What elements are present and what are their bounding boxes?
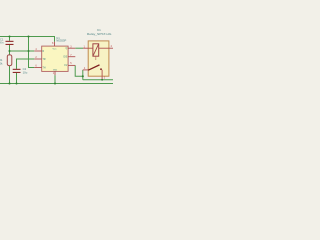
- wire vertical rail: [29, 37, 35, 68]
- junction IC gnd pin / rail: [54, 82, 56, 84]
- wire IC bottom pin to rail: [54, 75, 56, 83]
- wire R1 bottom: [9, 66, 11, 84]
- K1 contact fixed dot: [100, 68, 102, 70]
- svg-text:TH: TH: [43, 67, 46, 69]
- K1 contact armature: [88, 65, 99, 70]
- U1 pin left stub 2: [34, 58, 41, 60]
- wire VCC top rail: [0, 37, 55, 42]
- junction C2 / GND rail: [15, 82, 17, 84]
- U1 pin 8 top stub: [54, 42, 56, 46]
- K1 contact common stub: [83, 69, 88, 71]
- junction R1 / GND rail: [8, 82, 10, 84]
- wire C2 to IC pin left2: [17, 59, 35, 69]
- wire C2 bottom: [16, 73, 18, 84]
- svg-text:CV: CV: [64, 65, 68, 67]
- svg-text:VCC: VCC: [53, 48, 58, 50]
- K1 contact fixed lead: [101, 70, 103, 79]
- K1 coil: [93, 44, 99, 56]
- U1 pin names: [43, 48, 68, 72]
- wire node to IC pin left1: [10, 50, 35, 52]
- junction rail / pin wire: [27, 50, 29, 52]
- wire relay bottom pin drop: [101, 78, 103, 81]
- K1 coil diagonal: [93, 44, 99, 56]
- junction contact net: [82, 75, 84, 77]
- svg-text:Q: Q: [66, 48, 68, 50]
- svg-text:DIS: DIS: [63, 57, 67, 59]
- K1 pin numbers: [84, 45, 113, 79]
- wire R1 top stub: [9, 51, 11, 55]
- svg-text:TR: TR: [43, 59, 46, 61]
- op-amp U1 body: [42, 46, 68, 71]
- U1 pin right stub 3: [68, 64, 75, 66]
- K1 coil core line: [95, 56, 97, 60]
- capacitor C2: [13, 67, 28, 74]
- junction node C1-R1-wire: [8, 50, 10, 52]
- U1 pin 1 bottom stub: [54, 71, 56, 75]
- wire C1 top: [9, 37, 11, 41]
- capacitor C1: [0, 37, 14, 45]
- U1 pin left stub 3: [34, 67, 41, 69]
- svg-text:10u: 10u: [23, 71, 28, 75]
- U1 pin right stub 1: [68, 47, 75, 49]
- wire IC out to relay coil: [75, 47, 83, 49]
- wire contact out to right edge: [83, 79, 113, 81]
- junction top rail / vertical rail: [27, 35, 29, 37]
- svg-text:GND: GND: [53, 70, 58, 72]
- K1 coil leads: [83, 48, 113, 79]
- wire C1 bottom to node: [9, 45, 11, 51]
- U1 pin numbers: [35, 42, 72, 75]
- svg-text:100n: 100n: [0, 41, 4, 45]
- background: [0, 0, 113, 113]
- svg-text:Relay_SPST-HG: Relay_SPST-HG: [87, 32, 112, 36]
- wire GND bottom rail: [0, 83, 113, 85]
- wire contact vertical: [82, 70, 84, 80]
- svg-text:NE555P: NE555P: [56, 39, 66, 43]
- U1 pin right stub 2: [68, 56, 75, 58]
- relay K1 body: [88, 41, 109, 76]
- U1 pin left stub 1: [34, 50, 41, 52]
- junction relay pin / net: [101, 79, 103, 81]
- resistor R1: [0, 55, 12, 66]
- wire IC pin to contact net: [75, 65, 83, 76]
- junction top rail / C1: [8, 35, 10, 37]
